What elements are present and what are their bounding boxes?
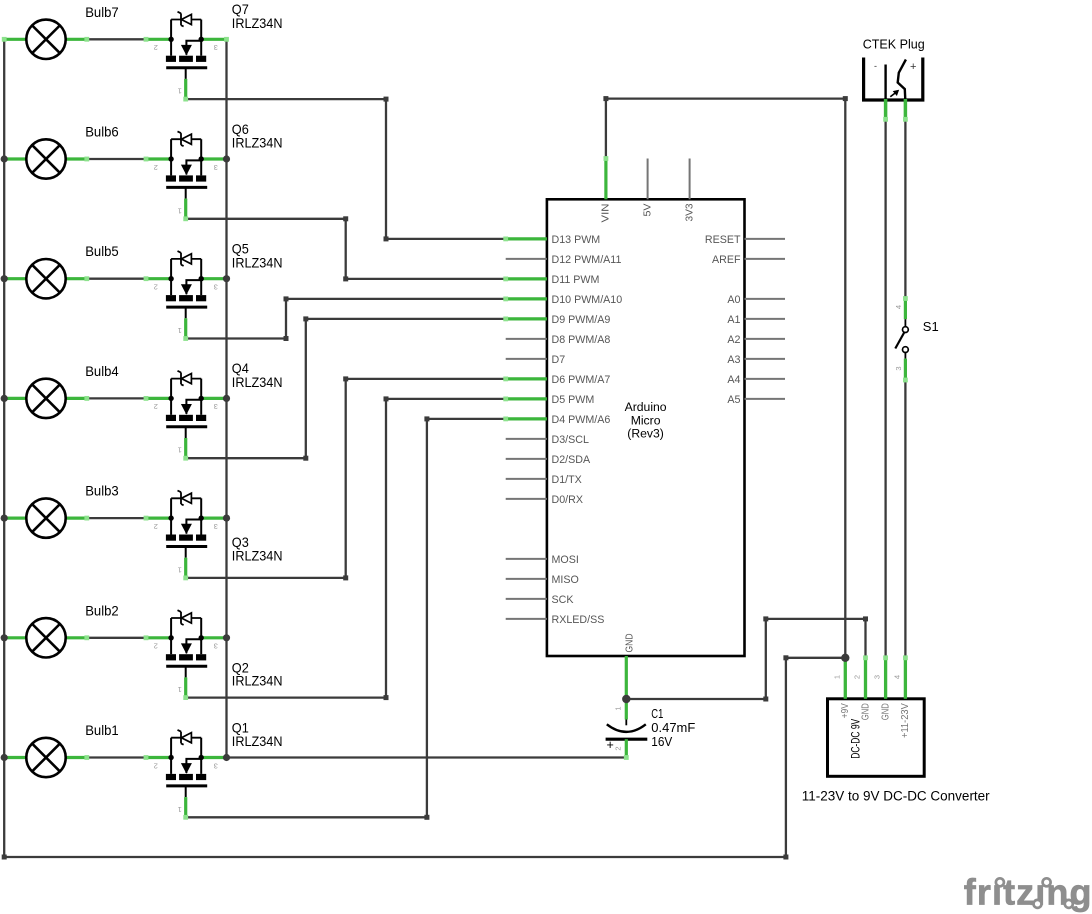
wire Q6 gate to Arduino D pin: [186, 219, 506, 279]
U1 pin A5: [745, 398, 786, 400]
wire Q3 gate to Arduino D pin: [186, 379, 506, 578]
U2 body outline: [828, 699, 925, 777]
switch S1: [894, 296, 939, 382]
wire Bulb5 to Q5 pin2: [87, 278, 146, 280]
svg-text:CTEK Plug: CTEK Plug: [863, 36, 925, 51]
svg-text:Bulb3: Bulb3: [85, 483, 119, 499]
S1 pin 4: [904, 298, 907, 319]
U1 pin D2/SDA: [506, 458, 547, 460]
U1 pin D5 PWM: [506, 397, 547, 400]
svg-text:5V: 5V: [641, 204, 653, 217]
U1 pin D8 PWM/A8: [506, 338, 547, 340]
connector J1 CTEK Plug: [863, 36, 925, 121]
svg-text:1: 1: [832, 675, 841, 679]
transistor Q6 IRLZ34N: [144, 121, 283, 221]
svg-text:SCK: SCK: [552, 594, 575, 606]
svg-text:D2/SDA: D2/SDA: [552, 454, 591, 466]
svg-text:IRLZ34N: IRLZ34N: [232, 548, 283, 564]
svg-text:D10 PWM/A10: D10 PWM/A10: [552, 294, 623, 306]
lamp Bulb6: [2, 124, 119, 179]
svg-text:Bulb2: Bulb2: [85, 602, 119, 618]
svg-text:Arduino: Arduino: [625, 400, 667, 414]
U1 pin AREF: [745, 258, 786, 260]
U1 pin GND: [625, 656, 628, 699]
svg-text:DC-DC 9V: DC-DC 9V: [848, 719, 862, 759]
U1 pin D7: [506, 358, 547, 360]
J1 negative contact: [884, 65, 886, 101]
J1 pin leads: [884, 99, 888, 121]
lamp Bulb5: [2, 243, 119, 298]
wire Q5 gate to Arduino D pin: [186, 299, 506, 339]
wire +9V left bulb bus: [4, 39, 845, 857]
junction dots left bus: [1, 155, 8, 761]
svg-text:GND: GND: [860, 703, 871, 720]
svg-text:A5: A5: [727, 394, 740, 406]
svg-text:A0: A0: [727, 294, 740, 306]
module U2 DC-DC converter: [802, 655, 990, 803]
transistor Q3 IRLZ34N: [144, 490, 283, 580]
wire Bulb7 to Q7 pin2: [87, 38, 146, 40]
junction GND node at C1: [622, 695, 630, 703]
S1 lever: [895, 333, 904, 349]
wire Bulb4 to Q4 pin2: [87, 397, 146, 399]
svg-text:2: 2: [853, 675, 862, 679]
U1 pin A3: [745, 358, 786, 360]
U1 pin 3V3: [689, 159, 691, 200]
S1 contacts: [903, 327, 909, 333]
svg-text:+: +: [910, 61, 916, 73]
U1 pin RESET: [745, 238, 786, 240]
wire Bulb3 to Q3 pin2: [87, 517, 146, 519]
svg-text:IRLZ34N: IRLZ34N: [232, 374, 283, 390]
wire Q2 gate to Arduino D pin: [186, 399, 506, 698]
svg-text:+11-23V: +11-23V: [900, 703, 911, 738]
svg-text:GND: GND: [880, 703, 891, 720]
U1 pin MOSI: [506, 558, 547, 560]
svg-text:A1: A1: [727, 314, 740, 326]
U1 pin D6 PWM/A7: [506, 377, 547, 380]
U1 pin SCK: [506, 598, 547, 600]
svg-text:Bulb7: Bulb7: [85, 4, 119, 20]
C1 negative curved plate: [607, 724, 646, 732]
U1 pin D4 PWM/A6: [506, 417, 547, 420]
U1 pin D3/SCL: [506, 438, 547, 440]
svg-text:D3/SCL: D3/SCL: [552, 434, 589, 446]
lamp Bulb7: [2, 4, 119, 59]
svg-text:S1: S1: [923, 319, 939, 334]
transistor Q5 IRLZ34N: [144, 241, 283, 341]
U1 body outline: [547, 199, 745, 656]
lamp Bulb4: [2, 363, 119, 418]
svg-text:D7: D7: [552, 354, 566, 366]
svg-text:MOSI: MOSI: [552, 554, 579, 566]
wire Bulb1 to Q1 pin2: [87, 756, 146, 758]
lamp Bulb1: [2, 722, 119, 777]
svg-text:1: 1: [614, 706, 623, 710]
svg-text:RESET: RESET: [705, 234, 741, 246]
S1 pin 3: [904, 353, 906, 359]
svg-text:(Rev3): (Rev3): [627, 427, 664, 441]
lamp Bulb3: [2, 483, 119, 538]
svg-text:A3: A3: [727, 354, 740, 366]
J1 positive contact: [898, 60, 906, 101]
svg-text:4: 4: [892, 675, 901, 679]
svg-text:D5 PWM: D5 PWM: [552, 394, 595, 406]
svg-text:AREF: AREF: [712, 254, 741, 266]
U1 pin D13 PWM: [506, 237, 547, 240]
svg-text:-: -: [874, 61, 877, 71]
wire Q4 gate to Arduino D pin: [186, 319, 506, 458]
U1 pin A4: [745, 378, 786, 380]
U1 pin RXLED/SS: [506, 618, 547, 620]
svg-text:IRLZ34N: IRLZ34N: [232, 733, 283, 749]
wire endpoints on U1 pins: [503, 237, 508, 242]
svg-text:0.47mF: 0.47mF: [651, 721, 695, 735]
svg-text:VIN: VIN: [600, 204, 612, 223]
U1 pin D11 PWM: [506, 277, 547, 280]
U1 pin D1/TX: [506, 478, 547, 480]
svg-text:D1/TX: D1/TX: [552, 474, 582, 486]
svg-text:MISO: MISO: [552, 574, 579, 586]
fritzing watermark: [964, 872, 1092, 913]
wire Q7 gate to Arduino D pin: [186, 99, 506, 239]
IC U1 Arduino Micro (Rev3): [503, 156, 785, 699]
U1 pin MISO: [506, 578, 547, 580]
svg-text:Bulb4: Bulb4: [85, 363, 119, 379]
transistor Q4 IRLZ34N: [144, 360, 283, 460]
svg-text:D4 PWM/A6: D4 PWM/A6: [552, 414, 611, 426]
svg-text:Bulb5: Bulb5: [85, 243, 119, 259]
svg-text:RXLED/SS: RXLED/SS: [552, 614, 605, 626]
wire MOSFET source bus (pin3) to C1 pin2: [227, 39, 627, 757]
svg-text:C1: C1: [651, 707, 663, 721]
svg-text:D13 PWM: D13 PWM: [552, 234, 601, 246]
svg-text:D12 PWM/A11: D12 PWM/A11: [552, 254, 622, 266]
capacitor C1 0.47mF 16V: [606, 699, 696, 760]
wire Bulb6 to Q6 pin2: [87, 158, 146, 160]
U1 pin A1: [745, 318, 786, 320]
svg-text:4: 4: [894, 305, 903, 309]
transistor Q1 IRLZ34N: [144, 719, 283, 819]
wire +9V riser to VIN rail: [606, 99, 845, 658]
svg-text:D8 PWM/A8: D8 PWM/A8: [552, 334, 611, 346]
U1 pin D10 PWM/A10: [506, 297, 547, 300]
U1 pin A2: [745, 338, 786, 340]
svg-text:D9 PWM/A9: D9 PWM/A9: [552, 314, 611, 326]
svg-text:A2: A2: [727, 334, 740, 346]
svg-text:D6 PWM/A7: D6 PWM/A7: [552, 374, 611, 386]
transistor Q2 IRLZ34N: [144, 610, 283, 700]
svg-text:Micro: Micro: [631, 413, 661, 427]
J1 spark arrow: [890, 91, 898, 97]
svg-text:Bulb1: Bulb1: [85, 722, 119, 738]
wire switch S1 to DC-DC pin4: [904, 380, 906, 658]
wire GND: C1 junction to DC-DC pin2: [626, 619, 865, 699]
J1 shell outline: [864, 58, 923, 101]
U1 pin D12 PWM/A11: [506, 258, 547, 260]
svg-text:IRLZ34N: IRLZ34N: [232, 254, 283, 270]
transistor Q7 IRLZ34N: [144, 1, 283, 101]
svg-text:16V: 16V: [651, 735, 673, 749]
svg-text:IRLZ34N: IRLZ34N: [232, 15, 283, 31]
svg-text:A4: A4: [727, 374, 740, 386]
svg-text:3V3: 3V3: [683, 203, 695, 221]
svg-text:Bulb6: Bulb6: [85, 124, 119, 140]
svg-text:11-23V to 9V DC-DC Converter: 11-23V to 9V DC-DC Converter: [802, 789, 990, 804]
U1 pin A0: [745, 298, 786, 300]
U1 pin D9 PWM/A9: [506, 317, 547, 320]
svg-text:D0/RX: D0/RX: [552, 494, 583, 506]
svg-text:2: 2: [614, 746, 623, 750]
svg-text:3: 3: [873, 675, 882, 679]
svg-text:+9V: +9V: [840, 703, 851, 718]
svg-text:D11 PWM: D11 PWM: [552, 274, 600, 286]
svg-text:IRLZ34N: IRLZ34N: [232, 673, 283, 689]
svg-text:GND: GND: [623, 633, 635, 652]
junction +9V node at DC-DC pin1: [841, 654, 849, 662]
U2 pins 1-4: [844, 658, 847, 699]
wire CTEK plus to switch S1: [904, 120, 906, 298]
U1 pin 5V: [647, 159, 649, 200]
U1 pin VIN: [604, 159, 607, 200]
C1 positive plate: [606, 738, 648, 741]
svg-text:IRLZ34N: IRLZ34N: [232, 135, 283, 151]
C1 pin 1: [625, 699, 628, 720]
lamp Bulb2: [2, 602, 119, 657]
svg-text:3: 3: [894, 366, 903, 370]
junction dots source bus: [223, 155, 230, 761]
wire Q1 gate to Arduino D pin: [186, 419, 506, 817]
wire CTEK minus to DC-DC pin3: [884, 120, 886, 658]
C1 pin 2: [625, 739, 628, 758]
wire Bulb2 to Q2 pin2: [87, 637, 146, 639]
U1 pin D0/RX: [506, 498, 547, 500]
